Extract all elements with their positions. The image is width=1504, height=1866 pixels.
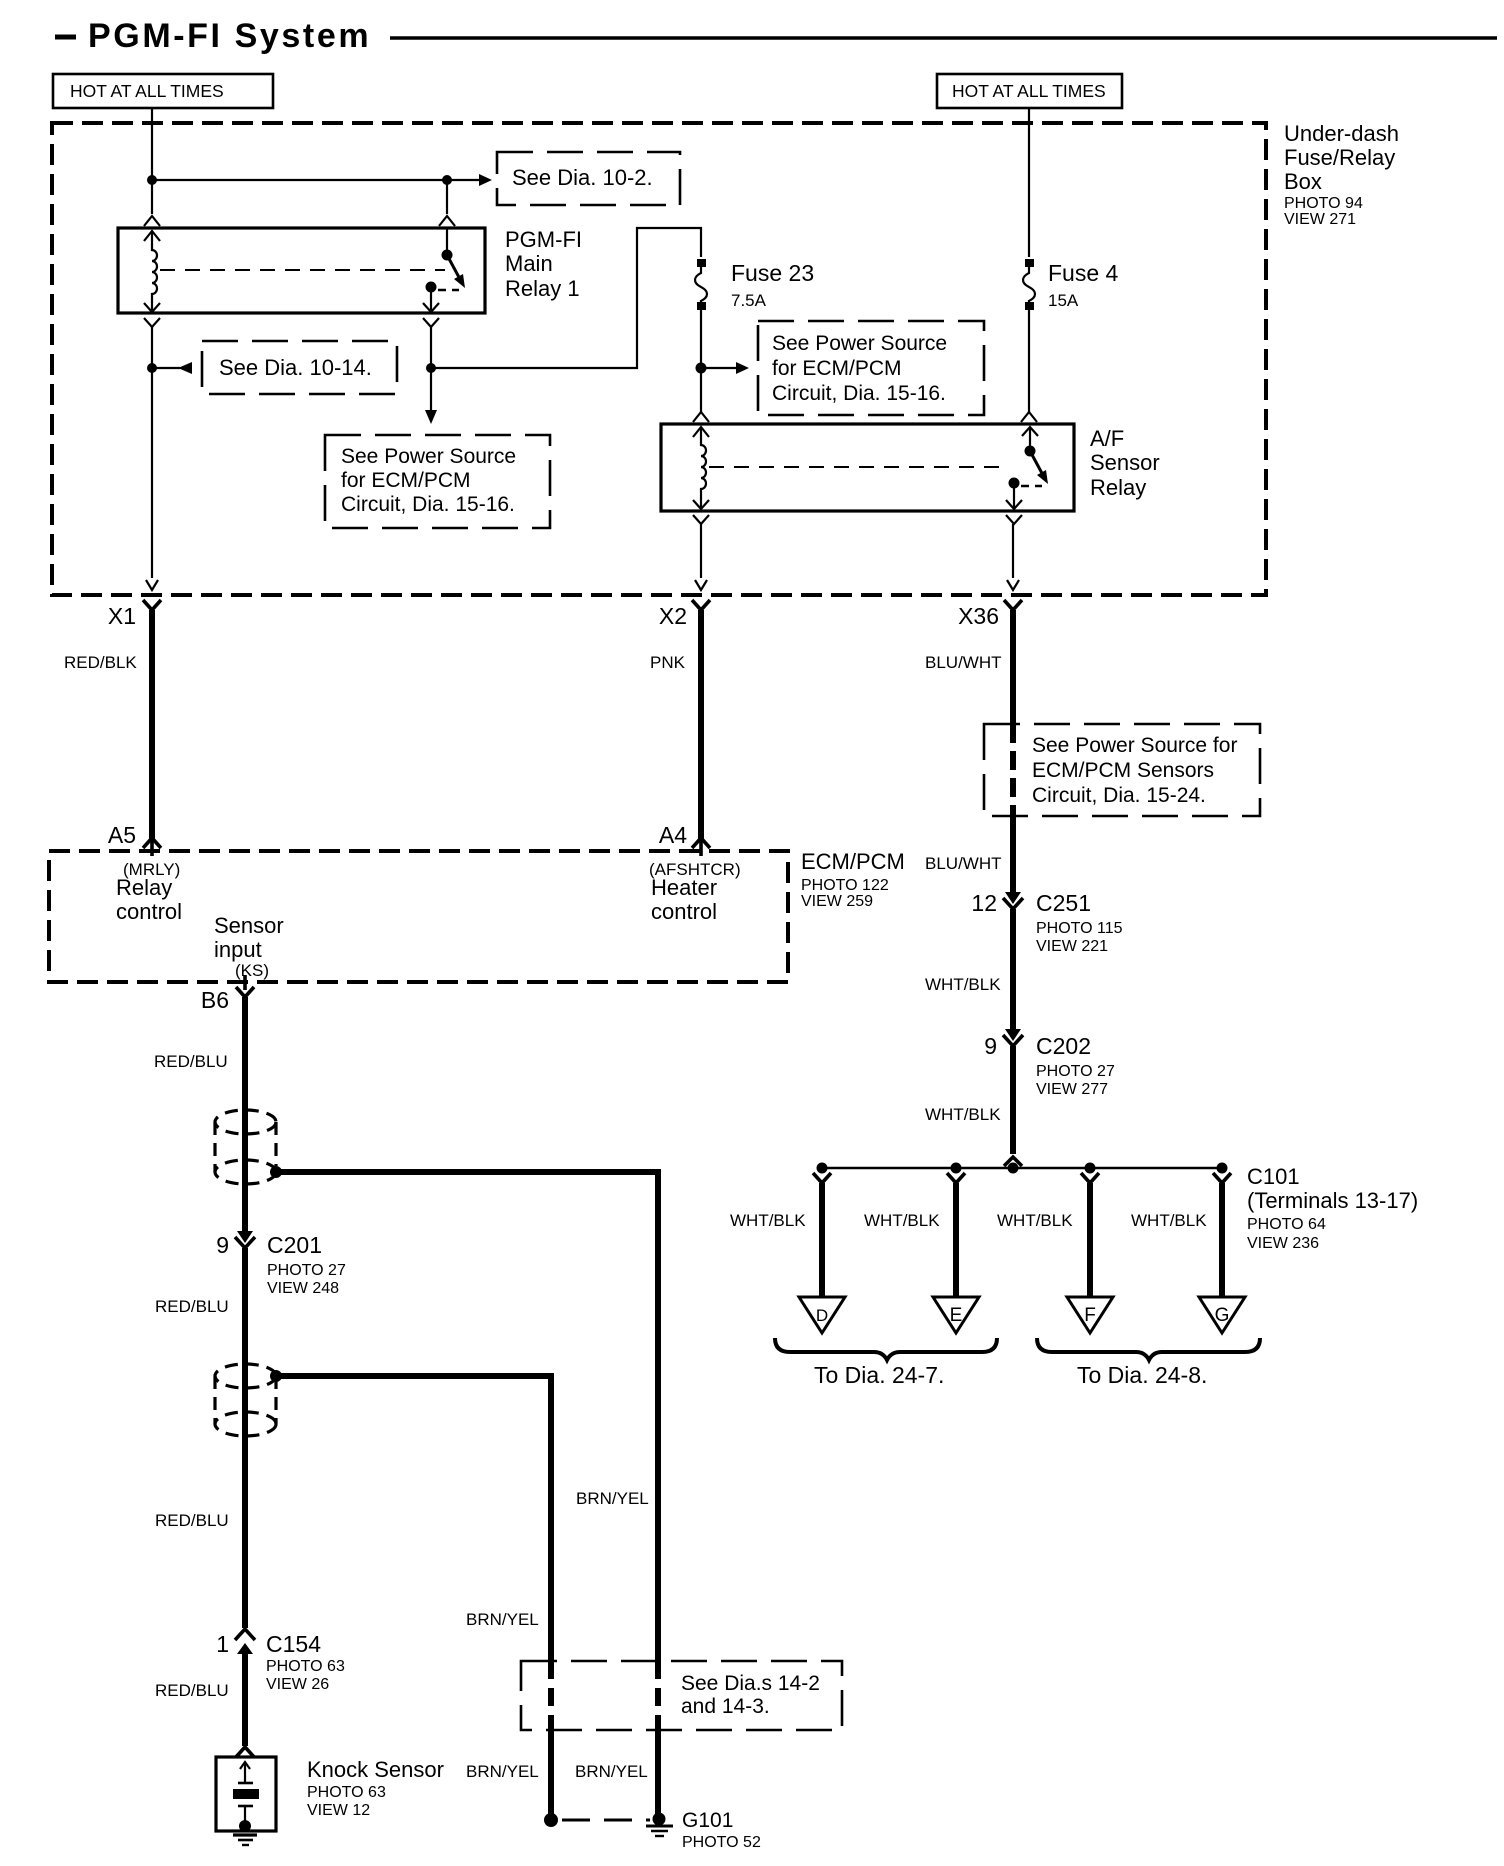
- svg-text:7.5A: 7.5A: [731, 291, 767, 310]
- pin terminal chevrons coil top: [144, 216, 160, 226]
- wire A/F relay switch to X36: [1012, 524, 1014, 578]
- brace To Dia. 24-7: [775, 1338, 997, 1388]
- pin terminal chevrons coil bottom: [144, 303, 160, 312]
- pin A5: [108, 822, 161, 856]
- splice bus C101: [822, 1167, 1222, 1170]
- label C101 (Terminals 13-17): [1247, 1164, 1418, 1252]
- label (AFSHTCR) Heater control: [649, 860, 741, 924]
- svg-text:15A: 15A: [1048, 291, 1079, 310]
- svg-text:BLU/WHT: BLU/WHT: [925, 854, 1002, 873]
- svg-text:D: D: [816, 1306, 828, 1325]
- fuse F23: [695, 259, 707, 310]
- svg-text:Knock Sensor: Knock Sensor: [307, 1757, 444, 1782]
- svg-text:See Dia. 10-2.: See Dia. 10-2.: [512, 165, 653, 190]
- svg-text:1: 1: [216, 1631, 229, 1657]
- dashed contact gap: [1021, 485, 1042, 488]
- switch output wire: [1013, 483, 1015, 508]
- svg-text:(Terminals 13-17): (Terminals 13-17): [1247, 1188, 1418, 1213]
- labels WHT/BLK row: [730, 1211, 1207, 1230]
- svg-text:HOT AT ALL TIMES: HOT AT ALL TIMES: [952, 81, 1106, 101]
- svg-text:VIEW 12: VIEW 12: [307, 1802, 370, 1819]
- wire C201 down through shield 2: [242, 1248, 248, 1628]
- svg-text:Circuit, Dia. 15-24.: Circuit, Dia. 15-24.: [1032, 784, 1206, 807]
- svg-text:RED/BLU: RED/BLU: [155, 1511, 229, 1530]
- svg-text:Circuit, Dia. 15-16.: Circuit, Dia. 15-16.: [341, 493, 515, 516]
- node: shield 2 tap: [270, 1370, 282, 1382]
- svg-text:for ECM/PCM: for ECM/PCM: [772, 357, 902, 380]
- svg-text:VIEW 271: VIEW 271: [1284, 211, 1356, 228]
- switch common feed: [439, 216, 455, 226]
- connector C202: [984, 1029, 1115, 1098]
- svg-text:PHOTO 27: PHOTO 27: [267, 1262, 346, 1279]
- connector X2 crossing: [659, 580, 710, 629]
- svg-text:See Power Source for: See Power Source for: [1032, 734, 1237, 757]
- label Knock Sensor: [307, 1757, 444, 1819]
- coil pin bottom chevrons: [693, 500, 709, 509]
- svg-text:G101: G101: [682, 1809, 733, 1832]
- node: NC contact: [426, 282, 437, 293]
- node: junction on left feed wire: [147, 175, 157, 185]
- svg-text:B6: B6: [201, 987, 229, 1013]
- svg-text:control: control: [651, 899, 717, 924]
- svg-text:PHOTO 63: PHOTO 63: [266, 1658, 345, 1675]
- arrow down to See Power Source (left): [430, 368, 432, 411]
- svg-text:WHT/BLK: WHT/BLK: [730, 1211, 806, 1230]
- pin A4: [659, 822, 710, 856]
- svg-text:F: F: [1084, 1305, 1096, 1326]
- svg-text:X2: X2: [659, 603, 687, 629]
- svg-text:BLU/WHT: BLU/WHT: [925, 653, 1002, 672]
- label Fuse 4 15A: [1048, 260, 1119, 310]
- svg-text:VIEW 221: VIEW 221: [1036, 938, 1108, 955]
- svg-text:ECM/PCM: ECM/PCM: [801, 849, 905, 874]
- svg-text:A/F: A/F: [1090, 426, 1124, 451]
- node: junction relay output: [426, 363, 436, 373]
- label Under-dash Fuse/Relay Box: [1284, 121, 1399, 228]
- svg-text:RED/BLU: RED/BLU: [155, 1297, 229, 1316]
- HOT AT ALL TIMES box right: [937, 74, 1122, 108]
- dashed actuation link: [709, 466, 1000, 468]
- svg-text:WHT/BLK: WHT/BLK: [997, 1211, 1073, 1230]
- svg-text:Fuse/Relay: Fuse/Relay: [1284, 145, 1395, 170]
- svg-text:control: control: [116, 899, 182, 924]
- ECM/PCM dashed box: [49, 851, 788, 982]
- svg-text:G: G: [1215, 1305, 1230, 1326]
- svg-text:E: E: [950, 1305, 963, 1326]
- arrow to See Power Source (middle): [701, 367, 736, 369]
- wire dashed through reference box: [1010, 724, 1016, 816]
- drop G: [1199, 1173, 1245, 1333]
- label (MRLY) Relay control: [116, 860, 182, 924]
- svg-text:VIEW 277: VIEW 277: [1036, 1081, 1108, 1098]
- svg-text:C202: C202: [1036, 1033, 1091, 1059]
- svg-text:VIEW 259: VIEW 259: [801, 893, 873, 910]
- knock sensor: [216, 1747, 276, 1845]
- svg-text:12: 12: [971, 890, 997, 916]
- node: junction below fuse 23: [696, 363, 707, 374]
- svg-text:To Dia. 24-8.: To Dia. 24-8.: [1077, 1362, 1207, 1388]
- reference box See Dia.s 14-2 and 14-3: [521, 1661, 842, 1730]
- svg-text:C101: C101: [1247, 1164, 1300, 1189]
- arrow to See Dia. 10-2: [479, 174, 492, 186]
- svg-text:VIEW 236: VIEW 236: [1247, 1235, 1319, 1252]
- svg-text:To Dia. 24-7.: To Dia. 24-7.: [814, 1362, 944, 1388]
- relay K1 PGM-FI Main Relay 1: [118, 216, 485, 327]
- wire BLU/WHT X36 down: [1010, 610, 1016, 724]
- svg-text:Main: Main: [505, 251, 553, 276]
- ground symbol knock sensor: [233, 1833, 257, 1836]
- svg-text:Fuse 4: Fuse 4: [1048, 260, 1119, 286]
- svg-text:Sensor: Sensor: [1090, 450, 1160, 475]
- svg-text:A5: A5: [108, 822, 136, 848]
- wire to C251: [1010, 816, 1016, 897]
- connector C251: [971, 890, 1122, 955]
- svg-text:WHT/BLK: WHT/BLK: [1131, 1211, 1207, 1230]
- wire and arrow to See Dia. 10-14: [152, 367, 180, 369]
- svg-text:See Dia. 10-14.: See Dia. 10-14.: [219, 355, 372, 380]
- noise suppressor shield 1: [215, 1110, 276, 1184]
- switch feed pin: [1021, 412, 1037, 422]
- node: left drain end: [544, 1813, 558, 1827]
- wire fuse 23 to A/F relay: [700, 305, 702, 412]
- wire A/F relay coil to X2: [700, 524, 702, 578]
- label A/F Sensor Relay: [1090, 426, 1160, 500]
- svg-text:PHOTO 122: PHOTO 122: [801, 877, 889, 894]
- svg-text:C251: C251: [1036, 890, 1091, 916]
- node: switch pivot: [1025, 446, 1036, 457]
- wire junction to relay switch pin: [446, 180, 448, 214]
- svg-text:Sensor: Sensor: [214, 913, 284, 938]
- wire relay coil to X1: [151, 327, 153, 578]
- drop D: [799, 1173, 845, 1333]
- reference box See Power Source for ECM/PCM Circuit, Dia. 15-16 (middle): [758, 321, 984, 415]
- node: shield 1 tap: [270, 1166, 282, 1178]
- svg-text:See Power Source: See Power Source: [341, 445, 516, 468]
- switch blade: [447, 255, 461, 281]
- HOT AT ALL TIMES box left: [53, 74, 273, 108]
- svg-text:and 14-3.: and 14-3.: [681, 1695, 770, 1718]
- svg-text:PGM-FI: PGM-FI: [505, 227, 582, 252]
- svg-text:PHOTO 64: PHOTO 64: [1247, 1216, 1326, 1233]
- svg-text:X36: X36: [958, 603, 999, 629]
- node: right drain end: [653, 1813, 666, 1826]
- wire RED/BLU B6 down: [242, 997, 248, 1237]
- connector C154: [216, 1629, 345, 1693]
- coil pin top chevrons: [693, 412, 709, 422]
- ground symbol G101: [646, 1825, 673, 1828]
- terminal chevron at bus: [1004, 1157, 1022, 1166]
- noise suppressor shield 2: [215, 1364, 276, 1436]
- svg-text:Under-dash: Under-dash: [1284, 121, 1399, 146]
- svg-text:See Dia.s 14-2: See Dia.s 14-2: [681, 1672, 820, 1695]
- svg-text:Heater: Heater: [651, 875, 717, 900]
- brace To Dia. 24-8: [1037, 1338, 1260, 1388]
- connector C201: [216, 1231, 346, 1297]
- wire from right HOT box to fuse 4: [1028, 108, 1030, 257]
- svg-text:WHT/BLK: WHT/BLK: [864, 1211, 940, 1230]
- fuse F4: [1023, 259, 1035, 310]
- wire to See Dia. 10-2: [152, 179, 480, 181]
- wire C154 to knock sensor: [242, 1654, 248, 1746]
- svg-text:Relay: Relay: [116, 875, 172, 900]
- node: knock sensor case ground: [239, 1820, 251, 1832]
- node: junction above relay switch: [442, 175, 452, 185]
- dashed contact gap: [438, 289, 459, 292]
- svg-text:PGM-FI System: PGM-FI System: [88, 17, 371, 55]
- reference box See Power Source for ECM/PCM Sensors Circuit, Dia. 15-24: [984, 724, 1260, 816]
- svg-text:BRN/YEL: BRN/YEL: [466, 1610, 539, 1629]
- wire RED/BLK X1 to A5: [149, 610, 155, 839]
- svg-text:for ECM/PCM: for ECM/PCM: [341, 469, 471, 492]
- svg-text:PNK: PNK: [650, 653, 686, 672]
- svg-text:C154: C154: [266, 1631, 321, 1657]
- svg-text:Relay 1: Relay 1: [505, 276, 580, 301]
- wire fuse 4 to A/F relay switch: [1028, 305, 1030, 412]
- svg-text:PHOTO 27: PHOTO 27: [1036, 1063, 1115, 1080]
- svg-text:RED/BLU: RED/BLU: [154, 1052, 228, 1071]
- svg-text:WHT/BLK: WHT/BLK: [925, 1105, 1001, 1124]
- svg-text:RED/BLU: RED/BLU: [155, 1681, 229, 1700]
- drop F: [1067, 1173, 1113, 1333]
- dashed actuation link: [160, 269, 445, 271]
- svg-text:A4: A4: [659, 822, 687, 848]
- drop E: [933, 1173, 979, 1333]
- switch blade: [1030, 451, 1044, 477]
- coil of relay 1: [152, 231, 157, 310]
- under-dash fuse/relay box (dashed enclosure): [52, 123, 1266, 595]
- svg-text:VIEW 26: VIEW 26: [266, 1676, 329, 1693]
- svg-text:VIEW 248: VIEW 248: [267, 1280, 339, 1297]
- wire shield 1 drain: [276, 1172, 658, 1661]
- pin B6: [201, 975, 254, 1013]
- wire from left HOT box down to relay: [151, 108, 153, 214]
- svg-text:9: 9: [216, 1232, 229, 1258]
- ground G101: [544, 1809, 761, 1851]
- svg-text:PHOTO 63: PHOTO 63: [307, 1784, 386, 1801]
- relay K2 A/F Sensor Relay: [661, 412, 1074, 524]
- reference box See Dia. 10-2: [497, 152, 680, 205]
- svg-text:RED/BLK: RED/BLK: [64, 653, 137, 672]
- svg-text:BRN/YEL: BRN/YEL: [576, 1489, 649, 1508]
- wire WHT/BLK C251 to C202: [1010, 909, 1016, 1034]
- svg-text:See Power Source: See Power Source: [772, 332, 947, 355]
- node: NC contact: [1009, 478, 1020, 489]
- svg-text:PHOTO 115: PHOTO 115: [1036, 920, 1123, 937]
- node: junction for See Dia. 10-14: [147, 363, 157, 373]
- wire elbow to fuse 23: [431, 228, 701, 368]
- node: switch pivot: [442, 250, 453, 261]
- node: bus junctions: [817, 1163, 828, 1174]
- dashed bond wire: [562, 1819, 650, 1822]
- svg-text:input: input: [214, 937, 262, 962]
- label Fuse 23 7.5A: [731, 260, 814, 310]
- svg-text:BRN/YEL: BRN/YEL: [575, 1762, 648, 1781]
- svg-text:PHOTO 52: PHOTO 52: [682, 1834, 761, 1851]
- svg-text:9: 9: [984, 1033, 997, 1059]
- svg-text:C201: C201: [267, 1232, 322, 1258]
- svg-text:ECM/PCM Sensors: ECM/PCM Sensors: [1032, 759, 1214, 782]
- svg-text:(KS): (KS): [235, 961, 269, 980]
- wire PNK X2 to A4: [698, 610, 704, 839]
- svg-text:Fuse 23: Fuse 23: [731, 260, 814, 286]
- svg-text:Relay: Relay: [1090, 475, 1146, 500]
- coil of A/F sensor relay: [701, 427, 706, 507]
- connector X36 crossing: [958, 580, 1022, 629]
- reference box See Power Source for ECM/PCM Circuit, Dia. 15-16 (left): [325, 435, 550, 528]
- svg-text:Circuit, Dia. 15-16.: Circuit, Dia. 15-16.: [772, 382, 946, 405]
- wire shield 2 drain: [276, 1376, 551, 1661]
- wire relay output to fuse 23 elbow: [430, 327, 432, 368]
- svg-text:Box: Box: [1284, 169, 1322, 194]
- connector X1 crossing: [108, 580, 161, 629]
- svg-text:BRN/YEL: BRN/YEL: [466, 1762, 539, 1781]
- svg-text:HOT AT ALL TIMES: HOT AT ALL TIMES: [70, 81, 224, 101]
- svg-text:PHOTO 94: PHOTO 94: [1284, 195, 1363, 212]
- reference box See Dia. 10-14: [202, 341, 397, 394]
- wire WHT/BLK C202 to splice bus: [1010, 1046, 1016, 1154]
- svg-text:X1: X1: [108, 603, 136, 629]
- switch output wire: [430, 287, 432, 310]
- label Sensor input (KS): [214, 913, 284, 980]
- title PGM-FI System: [55, 17, 1497, 55]
- label PGM-FI Main Relay 1: [505, 227, 582, 301]
- svg-text:WHT/BLK: WHT/BLK: [925, 975, 1001, 994]
- label ECM/PCM: [801, 849, 905, 910]
